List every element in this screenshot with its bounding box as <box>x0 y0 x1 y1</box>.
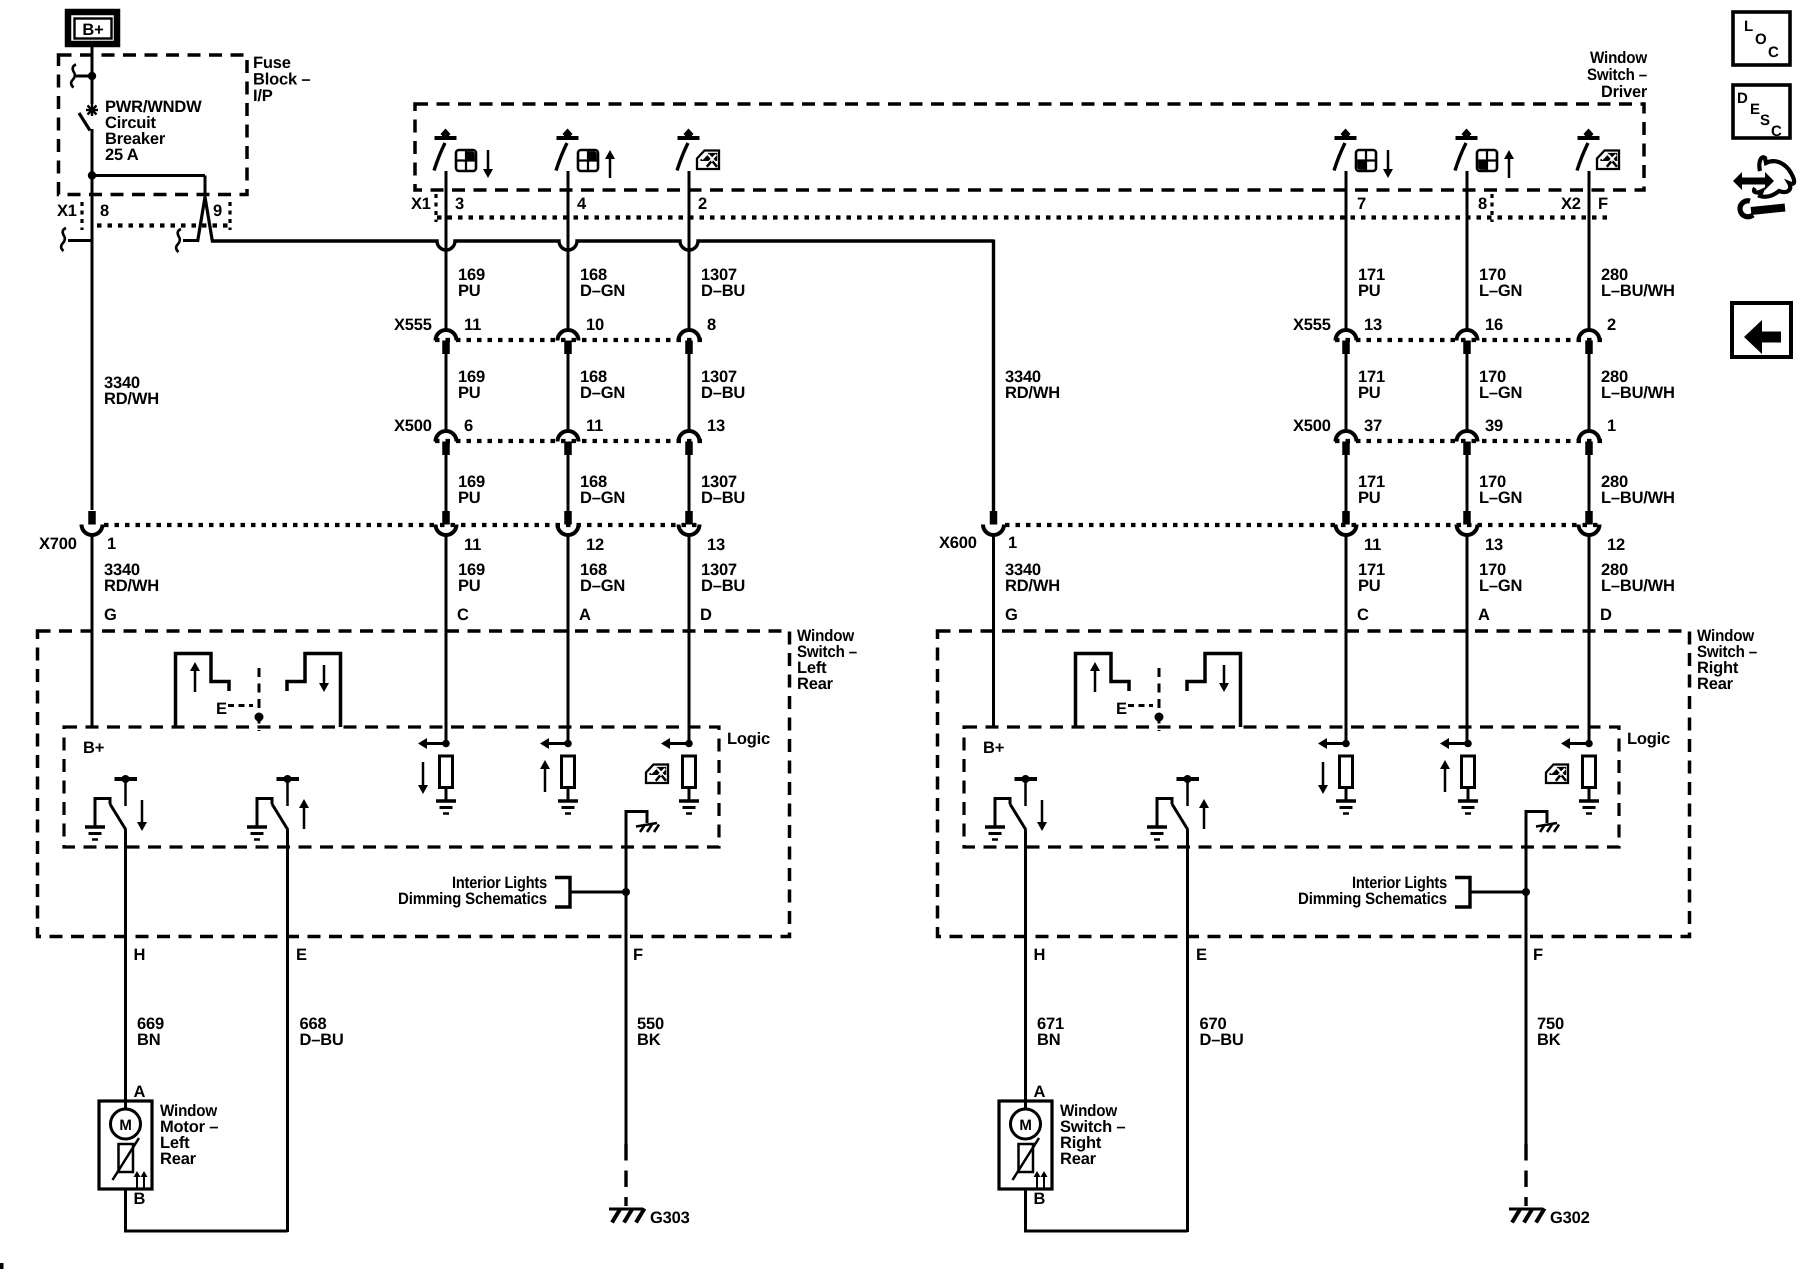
wire H down to motor <box>124 830 127 1110</box>
svg-text:Driver: Driver <box>1601 83 1648 101</box>
inline connector X500 pin 11 <box>558 431 579 442</box>
window icon <box>578 150 598 171</box>
svg-text:2: 2 <box>698 195 707 213</box>
connector row X555 right dotted line <box>1335 338 1602 342</box>
svg-text:X500: X500 <box>394 417 432 435</box>
terminal lead <box>76 75 92 78</box>
svg-text:Dimming Schematics: Dimming Schematics <box>398 890 547 908</box>
inline connector X600 pin 1 <box>990 511 998 525</box>
svg-text:E: E <box>1196 946 1207 964</box>
logic branch D (express) <box>685 740 693 748</box>
svg-text:L–GN: L–GN <box>1479 282 1522 300</box>
svg-text:L–GN: L–GN <box>1479 577 1522 595</box>
svg-text:PU: PU <box>1358 384 1381 402</box>
connector row X555 left dotted line <box>435 338 702 342</box>
inline connector rear-harness pin 11 <box>442 511 450 525</box>
driver switch contact at x=446 <box>435 136 457 140</box>
thermal limiter <box>1019 1144 1034 1172</box>
express-down window icon <box>697 151 719 170</box>
svg-text:2: 2 <box>1607 316 1616 334</box>
svg-text:Rear: Rear <box>160 1150 197 1168</box>
svg-text:X1: X1 <box>57 202 77 220</box>
svg-text:E: E <box>1750 101 1760 118</box>
svg-text:PU: PU <box>1358 282 1381 300</box>
driver switch contact at x=1467 <box>1456 136 1478 140</box>
ground G302 <box>1509 1208 1543 1211</box>
inline connector X500 pin 39 <box>1457 431 1478 442</box>
svg-text:G303: G303 <box>650 1209 690 1227</box>
rocker up arrow <box>1094 669 1097 692</box>
junction dot on F <box>1522 888 1530 896</box>
svg-text:Logic: Logic <box>1627 730 1670 748</box>
wire into rear switch <box>1466 535 1469 744</box>
rocker actuator down-contour <box>1187 654 1241 728</box>
svg-text:B+: B+ <box>983 739 1004 757</box>
svg-text:D–GN: D–GN <box>580 384 625 402</box>
svg-text:Block –: Block – <box>253 71 310 89</box>
inline connector rear-harness pin 12 <box>1585 511 1593 525</box>
wire into rear switch <box>445 535 448 744</box>
wire below X555 <box>1345 353 1348 431</box>
window switch driver dashed box <box>415 104 1644 190</box>
svg-text:A: A <box>134 1083 146 1101</box>
up arrow <box>609 157 612 178</box>
svg-text:G: G <box>1005 606 1018 624</box>
motor circle M <box>111 1109 141 1139</box>
wire F dashed to ground G302 <box>1524 1144 1527 1206</box>
up arrow beside E switch <box>1203 806 1206 829</box>
rocker E dashed link <box>228 704 253 707</box>
wire X700 to left rear switch B+ <box>91 535 94 727</box>
logic branch C (down) <box>442 740 450 748</box>
connector row X700 dotted line <box>104 523 702 527</box>
inline connector X555 pin 16 <box>1457 330 1478 340</box>
svg-text:X555: X555 <box>1293 316 1331 334</box>
svg-text:RD/WH: RD/WH <box>1005 384 1060 402</box>
switch output wire <box>688 171 691 330</box>
svg-text:D–GN: D–GN <box>580 489 625 507</box>
svg-text:X555: X555 <box>394 316 432 334</box>
svg-text:PU: PU <box>458 489 481 507</box>
LOC navigation box <box>1733 12 1790 65</box>
svg-text:D–BU: D–BU <box>1200 1031 1244 1049</box>
wire below X555 <box>1588 353 1591 431</box>
svg-text:F: F <box>633 946 643 964</box>
svg-text:C: C <box>1357 606 1369 624</box>
svg-text:16: 16 <box>1485 316 1503 334</box>
svg-text:A: A <box>579 606 591 624</box>
connector row X600 dotted line <box>1005 523 1602 527</box>
svg-text:12: 12 <box>586 536 604 554</box>
logic branch A (up) <box>564 740 572 748</box>
svg-text:D: D <box>700 606 712 624</box>
svg-text:8: 8 <box>100 202 109 220</box>
svg-text:39: 39 <box>1485 417 1503 435</box>
wire X600 to right rear switch B+ <box>992 535 995 727</box>
svg-text:PU: PU <box>1358 489 1381 507</box>
svg-text:7: 7 <box>1357 195 1366 213</box>
inline connector X555 pin 2 <box>1579 330 1600 340</box>
svg-text:D: D <box>1737 90 1748 107</box>
switch output wire <box>1588 171 1591 330</box>
wire breaker to X1 pin 8 <box>91 129 94 510</box>
svg-text:D–BU: D–BU <box>701 282 745 300</box>
svg-text:D–BU: D–BU <box>701 489 745 507</box>
svg-text:Logic: Logic <box>727 730 770 748</box>
svg-text:Window: Window <box>1590 49 1647 67</box>
connector row X1/X2 dotted line <box>437 215 1610 219</box>
svg-text:D: D <box>1600 606 1612 624</box>
driver switch contact at x=1589 <box>1578 136 1600 140</box>
svg-text:B: B <box>134 1190 146 1208</box>
circuit breaker PWR/WNDW 25A <box>86 109 98 111</box>
thermal limiter <box>119 1144 134 1172</box>
rocker pivot dashed line <box>258 668 261 731</box>
svg-text:D–GN: D–GN <box>580 282 625 300</box>
inline connector X500 pin 6 <box>436 431 457 442</box>
down arrow <box>487 150 490 171</box>
svg-text:Rear: Rear <box>1060 1150 1097 1168</box>
wire junction to pin 9 <box>92 174 205 177</box>
switch output wire <box>1345 171 1348 330</box>
terminal hook below pin 8 <box>61 228 66 251</box>
svg-text:BK: BK <box>637 1031 661 1049</box>
svg-text:3: 3 <box>455 195 464 213</box>
svg-text:S: S <box>1760 112 1770 129</box>
bus wire pin 9 to right 3340 feed with hops <box>211 241 994 250</box>
wire E down to motor return <box>286 830 289 1231</box>
wire F down <box>625 810 628 1144</box>
svg-text:L–BU/WH: L–BU/WH <box>1601 384 1675 402</box>
svg-text:PU: PU <box>458 282 481 300</box>
svg-text:C: C <box>1768 44 1779 61</box>
wire below X555 <box>445 353 448 431</box>
rocker up arrow <box>194 669 197 692</box>
svg-text:10: 10 <box>586 316 604 334</box>
B+ terminal box <box>68 12 117 44</box>
svg-text:PU: PU <box>458 577 481 595</box>
rocker pivot dot <box>255 713 264 722</box>
logic dashed box <box>964 727 1619 847</box>
svg-text:B: B <box>1034 1190 1046 1208</box>
svg-text:Fuse: Fuse <box>253 54 291 72</box>
svg-text:F: F <box>1598 195 1608 213</box>
window up switch (E) <box>1177 777 1200 781</box>
right 3340 feed drop <box>992 240 995 512</box>
window motor box <box>999 1101 1052 1189</box>
svg-text:1: 1 <box>1008 534 1017 552</box>
wire dimming to F <box>570 891 626 894</box>
svg-text:X1: X1 <box>411 195 431 213</box>
motor return wire <box>126 1189 288 1232</box>
terminal hook at B+ feed <box>71 65 76 88</box>
down arrow <box>1387 150 1390 171</box>
svg-text:H: H <box>134 946 146 964</box>
svg-text:11: 11 <box>586 417 603 435</box>
svg-text:L–GN: L–GN <box>1479 489 1522 507</box>
window switch right rear dashed box <box>938 631 1690 937</box>
svg-text:E: E <box>216 700 227 718</box>
DESC navigation box <box>1733 85 1790 138</box>
inline connector rear-harness pin 13 <box>685 511 693 525</box>
logic branch C (down) <box>1342 740 1350 748</box>
svg-text:RD/WH: RD/WH <box>104 390 159 408</box>
window icon <box>456 150 476 171</box>
rocker pivot dashed line <box>1158 668 1161 731</box>
svg-text:PU: PU <box>458 384 481 402</box>
svg-text:9: 9 <box>213 202 222 220</box>
motor circle M <box>1011 1109 1041 1139</box>
switch output wire <box>445 171 448 330</box>
double up arrows <box>136 1175 138 1188</box>
svg-text:D–GN: D–GN <box>580 577 625 595</box>
svg-text:D–BU: D–BU <box>300 1031 344 1049</box>
terminal hook below pin 9 <box>176 229 181 252</box>
svg-text:A: A <box>1478 606 1490 624</box>
rocker actuator up-contour <box>1076 654 1130 728</box>
express-down window icon <box>1597 151 1619 170</box>
wire F down <box>1525 810 1528 1144</box>
rocker actuator up-contour <box>176 654 230 728</box>
svg-text:BK: BK <box>1537 1031 1561 1049</box>
svg-text:Rear: Rear <box>797 675 834 693</box>
svg-text:X600: X600 <box>939 534 977 552</box>
wire dimming to F <box>1470 891 1526 894</box>
wire into rear switch <box>1588 535 1591 744</box>
rocker E dashed link <box>1128 704 1153 707</box>
svg-text:1: 1 <box>1607 417 1616 435</box>
svg-text:D–BU: D–BU <box>701 384 745 402</box>
svg-text:BN: BN <box>137 1031 160 1049</box>
svg-text:Switch –: Switch – <box>1587 66 1647 84</box>
window motor box <box>99 1101 152 1189</box>
wire below X555 <box>688 353 691 431</box>
window down switch (H) <box>115 777 138 781</box>
svg-text:H: H <box>1034 946 1046 964</box>
svg-text:B+: B+ <box>83 739 104 757</box>
inline connector X555 pin 8 <box>679 330 700 340</box>
svg-text:11: 11 <box>464 536 481 554</box>
svg-text:PU: PU <box>1358 577 1381 595</box>
wire into rear switch <box>688 535 691 744</box>
junction dot on F <box>622 888 630 896</box>
switch output wire <box>1466 171 1469 330</box>
inline connector X500 pin 13 <box>679 431 700 442</box>
double up arrows <box>1036 1175 1038 1188</box>
svg-text:Dimming Schematics: Dimming Schematics <box>1298 890 1447 908</box>
svg-text:D–BU: D–BU <box>701 577 745 595</box>
wire B+ to breaker <box>91 47 94 104</box>
svg-text:L–BU/WH: L–BU/WH <box>1601 489 1675 507</box>
logic internal ground for F <box>1526 812 1547 824</box>
wire below X500 <box>688 454 691 511</box>
svg-text:X500: X500 <box>1293 417 1331 435</box>
driver switch contact at x=1346 <box>1335 136 1357 140</box>
svg-text:X700: X700 <box>39 535 77 553</box>
svg-text:37: 37 <box>1364 417 1382 435</box>
wire below X555 <box>567 353 570 431</box>
wire below X500 <box>1466 454 1469 511</box>
window icon <box>1356 150 1376 171</box>
svg-text:L: L <box>1744 18 1753 35</box>
inline connector X555 pin 13 <box>1336 330 1357 340</box>
schematic navigation glyph (arrows and wrench) <box>1739 178 1768 185</box>
pin 9 splice legs <box>198 197 206 242</box>
wire F dashed to ground G303 <box>624 1144 627 1206</box>
svg-text:F: F <box>1533 946 1543 964</box>
svg-text:11: 11 <box>464 316 481 334</box>
up arrow beside E switch <box>303 806 306 829</box>
logic branch A (up) <box>1464 740 1472 748</box>
svg-text:RD/WH: RD/WH <box>104 577 159 595</box>
svg-text:12: 12 <box>1607 536 1625 554</box>
svg-text:O: O <box>1755 31 1767 48</box>
connector row X500 left dotted line <box>435 439 702 443</box>
rocker down arrow <box>323 665 326 685</box>
svg-text:4: 4 <box>577 195 587 213</box>
down arrow beside H switch <box>141 800 144 824</box>
ground G303 <box>609 1208 643 1211</box>
svg-text:C: C <box>1771 123 1782 140</box>
svg-text:L–GN: L–GN <box>1479 384 1522 402</box>
svg-text:BN: BN <box>1037 1031 1060 1049</box>
window down switch (H) <box>1015 777 1038 781</box>
wire below X500 <box>1588 454 1591 511</box>
motor return wire <box>1026 1189 1188 1232</box>
svg-text:I/P: I/P <box>253 87 273 105</box>
window up switch (E) <box>277 777 300 781</box>
inline connector X555 pin 11 <box>436 330 457 340</box>
svg-text:G302: G302 <box>1550 1209 1590 1227</box>
svg-text:25 A: 25 A <box>105 146 139 164</box>
rocker down arrow <box>1223 665 1226 685</box>
svg-text:E: E <box>1116 700 1127 718</box>
svg-text:11: 11 <box>1364 536 1381 554</box>
wire below X500 <box>567 454 570 511</box>
logic dashed box <box>64 727 719 847</box>
junction dot <box>88 72 96 80</box>
driver switch contact at x=689 <box>678 136 700 140</box>
svg-text:L–BU/WH: L–BU/WH <box>1601 282 1675 300</box>
junction dot at breaker output <box>88 171 96 179</box>
svg-text:A: A <box>1034 1083 1046 1101</box>
svg-text:C: C <box>457 606 469 624</box>
svg-text:G: G <box>104 606 117 624</box>
svg-text:Rear: Rear <box>1697 675 1734 693</box>
switch output wire <box>567 171 570 330</box>
inline connector X555 pin 10 <box>558 330 579 340</box>
rocker pivot dot <box>1155 713 1164 722</box>
driver switch contact at x=568 <box>557 136 579 140</box>
inline connector X500 pin 1 <box>1579 431 1600 442</box>
wire H down to motor <box>1024 830 1027 1110</box>
logic internal ground for F <box>626 812 647 824</box>
window icon <box>1477 150 1497 171</box>
svg-text:6: 6 <box>464 417 473 435</box>
down arrow beside H switch <box>1041 800 1044 824</box>
svg-text:13: 13 <box>1364 316 1382 334</box>
wire E down to motor return <box>1186 830 1189 1231</box>
svg-text:13: 13 <box>1485 536 1503 554</box>
page corner artifact <box>0 1263 4 1269</box>
wire into rear switch <box>567 535 570 744</box>
svg-text:13: 13 <box>707 417 725 435</box>
window switch left rear dashed box <box>38 631 790 937</box>
svg-text:L–BU/WH: L–BU/WH <box>1601 577 1675 595</box>
wire below X500 <box>445 454 448 511</box>
wire below X555 <box>1466 353 1469 431</box>
svg-text:RD/WH: RD/WH <box>1005 577 1060 595</box>
wire into rear switch <box>1345 535 1348 744</box>
up arrow <box>1508 157 1511 178</box>
svg-text:1: 1 <box>107 535 116 553</box>
svg-text:8: 8 <box>707 316 716 334</box>
inline connector rear-harness pin 13 <box>1463 511 1471 525</box>
svg-text:E: E <box>296 946 307 964</box>
inline connector X700 <box>88 511 96 525</box>
svg-text:13: 13 <box>707 536 725 554</box>
back arrow box <box>1732 303 1791 357</box>
svg-text:B+: B+ <box>82 21 103 39</box>
fuse block I/P dashed box <box>59 55 248 195</box>
svg-text:X2: X2 <box>1561 195 1581 213</box>
inline connector X500 pin 37 <box>1336 431 1357 442</box>
rocker actuator down-contour <box>287 654 341 728</box>
wire below X500 <box>1345 454 1348 511</box>
svg-text:8: 8 <box>1478 195 1487 213</box>
svg-text:M: M <box>119 1117 131 1134</box>
inline connector rear-harness pin 12 <box>564 511 572 525</box>
logic branch D (express) <box>1585 740 1593 748</box>
svg-text:M: M <box>1019 1117 1031 1134</box>
connector row X500 right dotted line <box>1335 439 1602 443</box>
inline connector rear-harness pin 11 <box>1342 511 1350 525</box>
